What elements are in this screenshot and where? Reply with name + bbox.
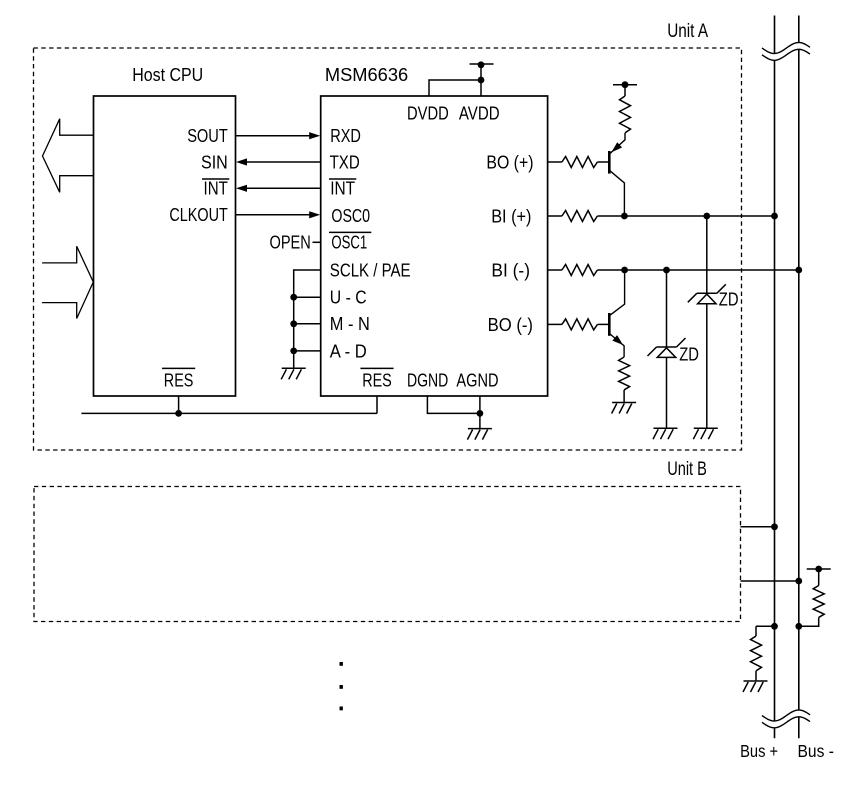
- svg-text:ZD: ZD: [719, 290, 739, 310]
- junction BI+ / Bus +: [771, 213, 778, 220]
- bus break top (upper squiggle): [762, 43, 810, 54]
- svg-text:INT: INT: [330, 178, 355, 198]
- svg-text:BO (-): BO (-): [488, 315, 533, 335]
- supply rail junction dot: [478, 61, 485, 68]
- ground (Q2 emitter): [612, 403, 637, 414]
- junction BI+ / Q1 collector: [621, 213, 628, 220]
- supply junction dot (Q1): [622, 81, 629, 88]
- Q2 emitter arrow (NPN): [612, 335, 623, 345]
- wire INT to INT: [241, 187, 321, 189]
- svg-text:ZD: ZD: [679, 345, 699, 365]
- transistor Q2 base bar: [608, 313, 611, 336]
- svg-text:RXD: RXD: [330, 126, 361, 146]
- supply rail bar (AVDD): [470, 63, 494, 65]
- wire R7 top: [755, 626, 757, 636]
- Q1 collector wire: [610, 171, 624, 216]
- overline of OSC1: [329, 231, 371, 233]
- Host CPU block: [94, 96, 236, 396]
- wire U - C to strap rail: [294, 296, 321, 298]
- strap rail segment 2: [293, 324, 295, 351]
- svg-text:OSC1: OSC1: [331, 232, 367, 252]
- wire DVDD up: [429, 80, 481, 96]
- zener ZD2 cathode bar: [697, 292, 717, 294]
- svg-text:DVDD: DVDD: [407, 103, 449, 123]
- junction Host RES: [175, 410, 182, 417]
- junction Unit B / Bus -: [795, 578, 802, 585]
- svg-text:U - C: U - C: [330, 288, 367, 308]
- Unit B stub to Bus -: [741, 580, 799, 582]
- wire R7 to ground: [755, 671, 757, 681]
- supply junction dot (Bus - pullup): [815, 566, 822, 573]
- Unit B enclosure (dashed): [34, 487, 741, 622]
- overline of RES (Host): [162, 367, 195, 369]
- Q2 emitter wire: [610, 334, 624, 357]
- svg-text:BI (+): BI (+): [491, 206, 531, 226]
- wire ZD2 to ground: [706, 304, 708, 429]
- svg-text:RES: RES: [362, 370, 392, 390]
- overline of INT (Host): [202, 178, 229, 180]
- bus break bottom (lower squiggle): [762, 717, 810, 728]
- resistor R8 (Bus - pullup): [813, 586, 824, 618]
- svg-text:Bus +: Bus +: [740, 741, 778, 761]
- bus break bottom (upper squiggle): [762, 710, 810, 721]
- stub BO (+): [548, 161, 562, 163]
- wire R2 top: [624, 85, 626, 96]
- overline of RES (MSM): [360, 367, 393, 369]
- junction A - D: [290, 348, 297, 355]
- wire BI (-) to Bus -: [597, 269, 798, 271]
- svg-text:AVDD: AVDD: [459, 103, 500, 123]
- wire RES net: [81, 412, 377, 414]
- junction BI- / Bus -: [795, 267, 802, 274]
- ground (AGND): [467, 429, 492, 440]
- zener ZD1 anode triangle: [657, 348, 675, 358]
- wire AGND down to ground: [479, 396, 481, 429]
- svg-text:RES: RES: [164, 370, 194, 390]
- resistor R3 (BI+): [562, 211, 598, 222]
- svg-text:OPEN: OPEN: [270, 232, 311, 252]
- Bus - line: [798, 16, 800, 739]
- resistor R1 (BO+ base): [562, 157, 598, 168]
- arrowhead into OSC0: [309, 211, 320, 218]
- svg-text:Unit A: Unit A: [667, 21, 708, 42]
- junction Bus - termination: [795, 623, 802, 630]
- junction M - N: [290, 320, 297, 327]
- zener ZD2 anode triangle: [698, 294, 716, 304]
- wire R6 to ground: [623, 390, 625, 403]
- wire ZD2 top: [706, 216, 708, 293]
- stub BO (-): [548, 323, 562, 325]
- wire SCLK / PAE to strap rail: [294, 270, 321, 297]
- svg-text:MSM6636: MSM6636: [325, 65, 408, 85]
- svg-text:Bus -: Bus -: [798, 741, 834, 761]
- Unit B stub to Bus +: [741, 526, 775, 528]
- ground (Bus + termination): [743, 681, 768, 692]
- stub MSM RES: [376, 396, 378, 413]
- hollow arrow (into host, right-pointing): [42, 246, 93, 318]
- svg-text:Unit B: Unit B: [667, 459, 707, 480]
- junction BI+ / ZD rail: [703, 213, 710, 220]
- resistor R6 (Q2 emitter): [619, 357, 630, 390]
- wire CLKOUT to OSC0: [236, 214, 315, 216]
- Bus + line: [774, 16, 776, 739]
- arrowhead into Host INT: [236, 185, 247, 192]
- junction BI- / ZD1 rail: [663, 267, 670, 274]
- svg-text:Host CPU: Host CPU: [132, 65, 203, 85]
- junction Unit B / Bus +: [771, 523, 778, 530]
- wire SOUT to RXD: [236, 135, 315, 137]
- resistor R2 (Q1 emitter): [620, 96, 631, 133]
- hollow arrow (to host, left-pointing): [43, 119, 94, 193]
- ground (ZD2): [693, 428, 718, 439]
- ZD2 cathode tab left: [688, 293, 697, 302]
- svg-text:INT: INT: [204, 178, 228, 198]
- junction Bus + termination: [771, 623, 778, 630]
- wire R5 to Q2 base: [597, 323, 608, 325]
- transistor Q1 base bar: [608, 151, 611, 174]
- svg-text:SIN: SIN: [201, 152, 228, 172]
- ZD1 cathode tab left: [648, 347, 657, 356]
- wire R8 to Bus -: [799, 618, 819, 627]
- svg-text:CLKOUT: CLKOUT: [169, 205, 227, 225]
- Q1 emitter wire: [610, 133, 625, 154]
- OPEN tie stub to OSC1: [313, 241, 321, 243]
- stub BI (+): [548, 215, 562, 217]
- svg-text:M - N: M - N: [330, 314, 370, 334]
- Q1 emitter arrow (PNP): [612, 142, 623, 152]
- ground (strap rail): [281, 368, 306, 379]
- bus break top (lower squiggle): [762, 49, 810, 60]
- svg-text:AGND: AGND: [456, 370, 498, 390]
- overline of INT (MSM): [329, 178, 356, 180]
- wire Bus + to R7: [756, 625, 775, 627]
- arrowhead into SIN: [236, 158, 247, 165]
- wire R8 top: [818, 569, 820, 586]
- ground (ZD1): [653, 428, 678, 439]
- junction U - C: [290, 294, 297, 301]
- wire ZD1 to ground: [666, 357, 668, 428]
- svg-text:DGND: DGND: [407, 370, 448, 390]
- supply rail bar (Bus - pullup): [807, 568, 831, 570]
- junction DGND-AGND: [477, 410, 484, 417]
- wire A - D to strap rail: [294, 350, 321, 352]
- wire ZD1 top: [666, 270, 668, 347]
- ZD1 cathode tab right: [677, 338, 686, 347]
- svg-text:OSC0: OSC0: [331, 206, 370, 226]
- svg-text:SCLK / PAE: SCLK / PAE: [330, 260, 411, 280]
- zener ZD1 cathode bar: [657, 346, 677, 348]
- arrowhead into RXD: [309, 132, 320, 139]
- stub BI (-): [548, 269, 562, 271]
- stub Host RES: [178, 396, 180, 413]
- strap rail segment: [293, 297, 295, 324]
- wire TXD to SIN: [241, 161, 321, 163]
- svg-text:A - D: A - D: [330, 341, 367, 361]
- wire DGND down: [427, 396, 480, 413]
- repetition ellipsis dots: [340, 662, 343, 710]
- supply rail bar (Q1): [613, 84, 637, 86]
- svg-text:BI (-): BI (-): [491, 260, 530, 280]
- svg-text:TXD: TXD: [330, 152, 360, 172]
- wire R1 to Q1 base: [597, 161, 608, 163]
- svg-text:BO (+): BO (+): [486, 152, 533, 172]
- strap rail to ground: [293, 351, 295, 368]
- resistor R4 (BI-): [562, 265, 598, 276]
- svg-text:SOUT: SOUT: [187, 126, 228, 146]
- Q2 collector wire: [610, 270, 625, 315]
- wire BI (+) to Bus +: [597, 215, 774, 217]
- wire M - N to strap rail: [294, 323, 321, 325]
- MSM6636 block: [321, 96, 548, 396]
- junction BI- / Q2 collector: [621, 267, 628, 274]
- ZD2 cathode tab right: [717, 284, 726, 293]
- resistor R5 (BO- base): [562, 319, 598, 330]
- junction DVDD-AVDD: [478, 77, 485, 84]
- Unit A enclosure (dashed): [34, 48, 742, 450]
- resistor R7 (Bus + pulldown): [751, 636, 762, 671]
- wire AVDD up: [480, 64, 482, 96]
